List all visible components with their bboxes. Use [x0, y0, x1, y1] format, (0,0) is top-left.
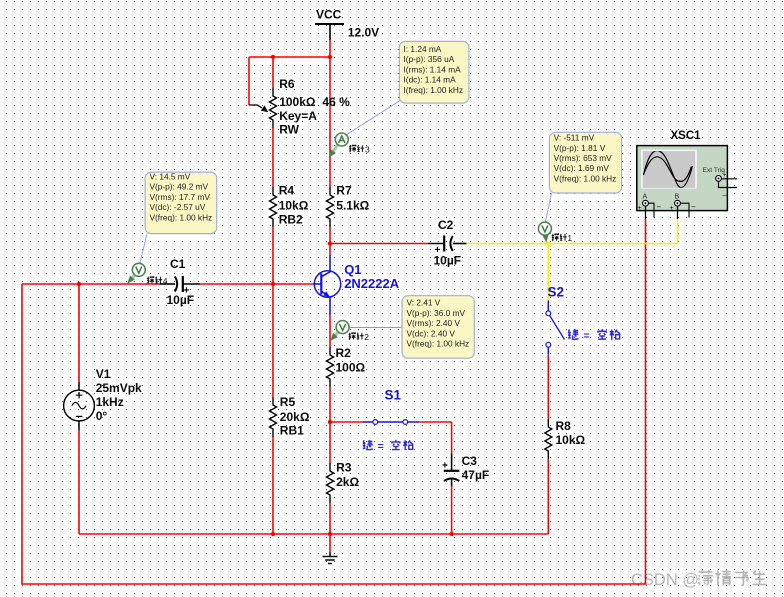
svg-text:I: 1.24 mA: I: 1.24 mA [404, 44, 442, 54]
svg-text:V: 2.41 V: V: 2.41 V [407, 298, 441, 308]
svg-text:CSDN @: CSDN @ [631, 571, 699, 589]
svg-text:B: B [675, 194, 680, 201]
svg-text:46 %: 46 % [322, 95, 350, 109]
label key space S1 [363, 440, 413, 453]
svg-text:+: + [184, 286, 190, 297]
capacitor C3 [442, 453, 489, 486]
label key space S2 [568, 329, 620, 342]
svg-text:RW: RW [279, 123, 299, 137]
svg-text:=: = [583, 330, 589, 342]
svg-text:V1: V1 [96, 367, 111, 381]
svg-text:10kΩ: 10kΩ [279, 199, 309, 213]
svg-text:V(rms): 17.7 mV: V(rms): 17.7 mV [150, 192, 211, 202]
transistor Q1 [314, 255, 400, 316]
svg-text:R6: R6 [279, 77, 295, 91]
probe 1 voltage output [538, 193, 572, 243]
probe 4 voltage input [127, 234, 168, 286]
svg-text:C3: C3 [462, 454, 478, 468]
svg-text:3: 3 [365, 144, 370, 154]
svg-text:2N2222A: 2N2222A [344, 276, 400, 291]
power VCC [315, 8, 379, 41]
resistor R4 [270, 184, 309, 228]
svg-text:100kΩ: 100kΩ [279, 95, 316, 109]
wire outer scope loop [22, 219, 646, 584]
svg-text:V(freq): 1.00 kHz: V(freq): 1.00 kHz [407, 339, 470, 349]
svg-text:Key=A: Key=A [279, 109, 317, 123]
ground [323, 552, 338, 564]
wire collector to C2 [330, 243, 428, 245]
svg-text:I(dc): 1.14 mA: I(dc): 1.14 mA [404, 75, 457, 85]
svg-text:47µF: 47µF [462, 468, 490, 482]
wire R6 R4 R5 column [272, 57, 274, 534]
node junction dots [77, 55, 454, 536]
svg-text:+: + [638, 205, 642, 212]
svg-text:V(p-p): 36.0 mV: V(p-p): 36.0 mV [407, 308, 466, 318]
svg-text:5.1kΩ: 5.1kΩ [336, 199, 369, 213]
svg-text:V(dc): 1.69 mV: V(dc): 1.69 mV [554, 163, 610, 173]
oscilloscope XSC1 [637, 130, 737, 219]
svg-text:12.0V: 12.0V [348, 26, 379, 40]
svg-text:+: + [723, 172, 727, 179]
watermark CSDN [631, 570, 767, 589]
wire S2 to R8 red [547, 355, 549, 534]
annotation box current I [399, 41, 469, 103]
svg-text:1kHz: 1kHz [96, 395, 124, 409]
svg-text:S2: S2 [548, 285, 565, 300]
source V1 [64, 367, 142, 431]
svg-text:I(rms): 1.14 mA: I(rms): 1.14 mA [404, 64, 462, 74]
resistor R6 potentiometer [249, 77, 350, 137]
svg-text:V(dc): -2.57 uV: V(dc): -2.57 uV [150, 202, 206, 212]
svg-text:V: -511 mV: V: -511 mV [554, 133, 595, 143]
annotation box V output [549, 132, 621, 193]
probe 3 current probe A [329, 99, 403, 158]
svg-text:I(p-p): 356 uA: I(p-p): 356 uA [404, 54, 455, 64]
wire ground rail [79, 533, 548, 535]
svg-text:VCC: VCC [316, 8, 342, 22]
svg-text:S1: S1 [385, 387, 402, 402]
svg-text:XSC1: XSC1 [671, 130, 702, 142]
svg-text:R3: R3 [336, 461, 352, 475]
svg-text:R5: R5 [280, 395, 296, 409]
svg-text:2: 2 [364, 332, 369, 342]
wire V1 branch [78, 284, 80, 534]
switch S1 [363, 387, 420, 424]
svg-text:R4: R4 [279, 184, 295, 198]
wire VCC column [249, 40, 330, 255]
svg-text:R7: R7 [336, 184, 352, 198]
svg-text:V(freq): 1.00 kHz: V(freq): 1.00 kHz [554, 173, 617, 183]
wire emitter column [329, 315, 331, 552]
wire yellow output [466, 219, 677, 300]
svg-text:V(p-p): 1.81 V: V(p-p): 1.81 V [554, 143, 606, 153]
svg-text:RB2: RB2 [279, 213, 303, 227]
svg-text:Q1: Q1 [344, 262, 361, 277]
svg-text:_: _ [722, 187, 728, 196]
svg-text:10µF: 10µF [167, 293, 195, 307]
resistor R2 [327, 346, 366, 387]
node yellow junction [546, 242, 550, 246]
svg-text:4: 4 [163, 276, 168, 286]
svg-text:V(p-p): 49.2 mV: V(p-p): 49.2 mV [150, 182, 209, 192]
annotation box V emitter [402, 296, 474, 359]
svg-text:+: + [435, 245, 441, 256]
svg-text:+: + [670, 205, 674, 212]
svg-text:2kΩ: 2kΩ [336, 475, 359, 489]
svg-text:V(dc): 2.40 V: V(dc): 2.40 V [407, 328, 456, 338]
svg-text:=: = [378, 441, 384, 453]
wire S1 row [330, 422, 452, 534]
svg-text:C2: C2 [438, 218, 454, 232]
wire pot left branch [248, 57, 250, 105]
probe 2 voltage emitter [330, 321, 402, 342]
svg-text:0°: 0° [96, 409, 108, 423]
svg-text:20kΩ: 20kΩ [280, 410, 310, 424]
wire input rail [22, 283, 314, 285]
resistor R5 [270, 395, 310, 438]
capacitor C1 [160, 257, 201, 307]
svg-text:V(rms): 653 mV: V(rms): 653 mV [554, 153, 613, 163]
svg-text:R8: R8 [556, 419, 572, 433]
annotation box V input [145, 172, 217, 234]
capacitor C2 [428, 218, 467, 268]
svg-text:1: 1 [567, 233, 572, 243]
resistor R7 [327, 184, 370, 228]
svg-text:I(freq): 1.00 kHz: I(freq): 1.00 kHz [404, 85, 463, 95]
svg-text:C1: C1 [170, 257, 186, 271]
svg-text:V(rms): 2.40 V: V(rms): 2.40 V [407, 318, 461, 328]
switch S2 [546, 285, 565, 355]
svg-text:R2: R2 [336, 346, 352, 360]
svg-text:RB1: RB1 [280, 424, 304, 438]
resistor R3 [327, 461, 360, 504]
svg-text:V: 14.5 mV: V: 14.5 mV [150, 172, 191, 182]
svg-text:−: − [691, 202, 696, 211]
svg-text:−: − [657, 202, 662, 211]
svg-text:A: A [643, 194, 648, 201]
svg-text:V(freq): 1.00 kHz: V(freq): 1.00 kHz [150, 212, 213, 222]
svg-text:100Ω: 100Ω [336, 361, 366, 375]
resistor R8 [545, 419, 586, 459]
svg-text:25mVpk: 25mVpk [96, 381, 142, 395]
svg-text:+: + [442, 461, 448, 472]
svg-text:10kΩ: 10kΩ [556, 433, 586, 447]
